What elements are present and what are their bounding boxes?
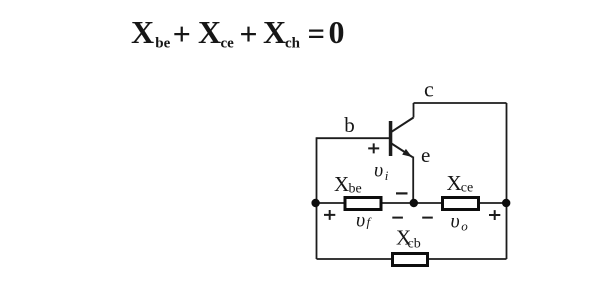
plus right <box>489 210 500 220</box>
transistor Q1 emitter arrow <box>402 149 412 157</box>
equation X_be + X_ce + X_ch = 0 <box>131 14 345 52</box>
wire bottom left <box>317 258 393 260</box>
wire middle rail right <box>479 202 507 204</box>
svg-text:υ: υ <box>356 210 365 232</box>
svg-text:o: o <box>461 219 468 234</box>
svg-text:0: 0 <box>329 14 345 50</box>
svg-text:+: + <box>173 16 191 52</box>
svg-text:X: X <box>131 14 154 50</box>
node center <box>410 199 418 207</box>
svg-text:e: e <box>421 143 430 167</box>
wire emitter diagonal <box>392 144 413 158</box>
svg-text:=: = <box>308 16 326 52</box>
resistor Xbe <box>345 198 381 210</box>
wire left vertical <box>316 137 318 259</box>
wire collector diagonal <box>392 118 414 132</box>
plus left <box>324 210 335 220</box>
wire collector vertical <box>413 103 415 118</box>
svg-text:υ: υ <box>374 160 383 182</box>
svg-text:ch: ch <box>285 35 301 51</box>
svg-text:X: X <box>447 171 462 195</box>
svg-text:+: + <box>239 16 257 52</box>
transistor Q1 base bar <box>389 121 393 156</box>
svg-text:X: X <box>198 14 221 50</box>
svg-text:cb: cb <box>408 237 421 252</box>
svg-text:ce: ce <box>221 35 235 51</box>
wire right vertical <box>506 103 508 259</box>
node left <box>311 199 319 207</box>
svg-text:X: X <box>263 14 286 50</box>
resistor Xcb <box>393 254 428 266</box>
svg-text:X: X <box>334 172 349 196</box>
svg-text:be: be <box>155 35 170 51</box>
minus of vo <box>422 217 433 219</box>
svg-text:i: i <box>385 168 389 183</box>
svg-text:be: be <box>349 182 362 197</box>
plus at base <box>368 143 379 153</box>
wire bottom right <box>428 258 507 260</box>
node right <box>502 199 510 207</box>
svg-text:ce: ce <box>461 181 473 196</box>
svg-text:c: c <box>424 77 434 102</box>
resistor Xce <box>443 198 479 210</box>
wire base <box>317 137 390 139</box>
svg-text:f: f <box>367 215 373 230</box>
wire middle rail left <box>316 202 345 204</box>
wire emitter vertical <box>412 157 414 204</box>
svg-text:b: b <box>344 113 355 137</box>
minus of vi <box>396 192 408 194</box>
svg-text:υ: υ <box>451 211 460 233</box>
wire middle rail center <box>383 202 443 204</box>
wire top <box>414 102 507 104</box>
minus of vf <box>392 217 403 219</box>
